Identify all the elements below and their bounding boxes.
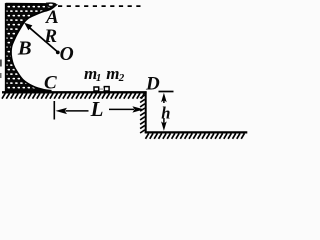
lower ground line bbox=[145, 131, 248, 133]
L right arrow bbox=[132, 106, 144, 112]
svg-text:D: D bbox=[145, 73, 160, 94]
h up arrow bbox=[161, 93, 167, 103]
svg-text:h: h bbox=[161, 103, 170, 122]
svg-text:C: C bbox=[44, 73, 57, 94]
wall top edge bbox=[6, 3, 50, 6]
step face hatching bbox=[140, 95, 145, 133]
faint mark between blocks bbox=[100, 88, 105, 90]
radius arrow R bbox=[30, 28, 58, 52]
wall with concave cavity (arc A-B-C) bbox=[6, 4, 56, 91]
h down arrow bbox=[161, 121, 167, 130]
upper ground line bbox=[2, 91, 147, 93]
block m2 bbox=[104, 87, 109, 91]
lower ground hatching bbox=[146, 133, 245, 138]
svg-text:B: B bbox=[17, 38, 32, 60]
dashed line from A level bbox=[58, 5, 142, 7]
L dimension tick bbox=[53, 101, 55, 120]
svg-text:R: R bbox=[43, 26, 57, 47]
L left arrow bbox=[56, 108, 68, 114]
block m1 bbox=[94, 87, 99, 91]
upper ground hatching bbox=[2, 93, 144, 98]
edge specks bbox=[0, 60, 2, 67]
center dot O bbox=[56, 51, 60, 55]
svg-text:O: O bbox=[60, 44, 74, 65]
wall tip blob at A bbox=[46, 2, 57, 7]
step vertical face bbox=[145, 91, 147, 132]
svg-text:L: L bbox=[90, 97, 104, 121]
h dimension top tick bbox=[159, 91, 174, 93]
